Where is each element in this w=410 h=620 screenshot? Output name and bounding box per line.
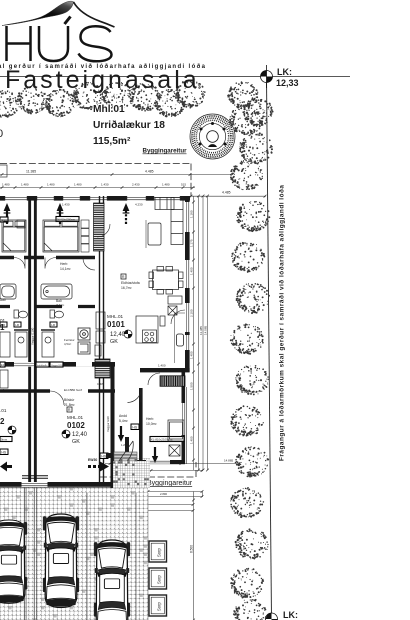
svg-text:Fasteignasala: Fasteignasala — [5, 66, 200, 94]
svg-text:515: 515 — [181, 183, 186, 187]
svg-text:0: 0 — [0, 128, 3, 140]
svg-text:MHL.01: MHL.01 — [107, 314, 124, 319]
svg-text:14.085: 14.085 — [204, 325, 208, 335]
svg-text:4.485: 4.485 — [222, 191, 231, 195]
dashed building-limit line bottom — [100, 462, 196, 477]
car 1 — [0, 520, 27, 603]
vertical dimension chains right — [193, 196, 195, 470]
svg-text:1.20: 1.20 — [121, 443, 127, 447]
svg-text:5,4m²: 5,4m² — [119, 419, 129, 423]
svg-text:0101: 0101 — [107, 320, 125, 329]
svg-text:12,40: 12,40 — [110, 332, 126, 338]
svg-text:C.48: C.48 — [168, 368, 174, 372]
toilet right — [50, 310, 64, 318]
arrow EW30 right — [88, 462, 109, 472]
svg-text:2.430: 2.430 — [132, 183, 140, 187]
svg-text:Veggur E160: Veggur E160 — [51, 364, 64, 367]
bathtub right — [41, 284, 72, 299]
window label right — [150, 437, 184, 442]
window label mid — [56, 217, 79, 222]
svg-text:1.400: 1.400 — [190, 267, 194, 275]
paving edge line — [147, 493, 149, 620]
svg-text:1.400: 1.400 — [190, 436, 194, 444]
svg-text:.01: .01 — [0, 408, 7, 413]
opening arrow entrance dashed — [123, 203, 130, 224]
balcony door top — [171, 310, 185, 324]
svg-text:2.890: 2.890 — [160, 492, 167, 496]
svg-text:Eldhús/stofa: Eldhús/stofa — [121, 281, 140, 285]
svg-text:MHL.01: MHL.01 — [67, 415, 84, 420]
door herb lower — [148, 373, 160, 385]
door kitchen hall — [97, 224, 110, 237]
kitchen wall cabinets right — [160, 296, 182, 326]
svg-text:Bað: Bað — [0, 297, 6, 302]
svg-text:1.480: 1.480 — [47, 183, 55, 187]
sorp bin 2 — [149, 568, 167, 589]
herb chair x — [169, 445, 180, 456]
door bedroom right — [45, 258, 56, 269]
svg-text:2: 2 — [0, 417, 5, 426]
washbasin right — [42, 332, 54, 357]
logo text HUS — [7, 17, 112, 62]
label eldhus/stofa — [121, 274, 126, 279]
left unit KL label fragment — [0, 437, 12, 442]
svg-text:HS: HS — [1, 450, 6, 454]
porch divider wall — [139, 388, 143, 460]
svg-text:12,40: 12,40 — [72, 432, 88, 438]
svg-text:4.485: 4.485 — [145, 170, 154, 174]
corner sofa — [155, 198, 183, 245]
interior wall bath bottom — [0, 305, 95, 308]
svg-text:Þéttiklæðn: Þéttiklæðn — [37, 364, 48, 367]
svg-text:4.230: 4.230 — [135, 203, 143, 207]
wall kitchen side — [100, 196, 104, 482]
svg-text:Herb: Herb — [146, 417, 153, 421]
sliding door leaf — [177, 334, 184, 346]
door living — [83, 258, 95, 270]
svg-text:1.480: 1.480 — [74, 183, 82, 187]
svg-text:10,0m²: 10,0m² — [146, 422, 157, 426]
vertical dimension line far right bottom — [193, 492, 195, 620]
herb desk — [168, 420, 184, 441]
svg-text:LK:: LK: — [283, 610, 298, 620]
svg-text:El-C5B0 hurð: El-C5B0 hurð — [64, 387, 82, 392]
entry door arc — [112, 441, 133, 470]
svg-text:Mhl.01: Mhl.01 — [93, 104, 125, 115]
left unit fragments — [0, 332, 10, 388]
car 3 — [94, 540, 130, 620]
svg-text:Byggingareitur: Byggingareitur — [143, 148, 188, 155]
svg-text:EW30: EW30 — [88, 458, 97, 462]
logo roof swoosh — [2, 1, 74, 25]
svg-text:14,1m²: 14,1m² — [60, 267, 71, 271]
hatched closet mid — [95, 359, 110, 378]
svg-text:Sorp: Sorp — [157, 601, 162, 611]
garage side wall — [111, 364, 115, 488]
bottom wall garage — [0, 482, 114, 487]
porch wall — [125, 437, 129, 455]
arrow down entry — [152, 447, 158, 463]
paved parking area — [0, 487, 148, 620]
terrace recess outline — [175, 313, 186, 363]
svg-text:1.480: 1.480 — [162, 183, 170, 187]
interior wall mid thick — [0, 362, 115, 367]
ornamental tree (concentric) — [190, 114, 235, 159]
wall bottom right — [137, 460, 185, 464]
plot boundary top line — [0, 76, 350, 78]
svg-text:11.385: 11.385 — [199, 326, 203, 335]
benchmark 0102 — [62, 430, 70, 438]
rug line — [145, 220, 147, 248]
bathtub left — [0, 284, 16, 299]
svg-text:1.180: 1.180 — [190, 210, 194, 218]
sorp bin 3 — [149, 595, 167, 616]
window label left — [0, 217, 8, 222]
svg-text:Sorp: Sorp — [157, 574, 162, 584]
wall terrace top — [140, 368, 190, 372]
wall right lower — [182, 372, 186, 464]
svg-text:GK: GK — [110, 339, 118, 345]
wall labels mid — [0, 362, 5, 367]
fridge boxes — [168, 306, 177, 315]
svg-text:1.480: 1.480 — [21, 183, 29, 187]
kitchen island — [136, 316, 158, 343]
dashed building-limit line top — [0, 163, 191, 165]
dimension line right of building top — [190, 195, 266, 197]
svg-text:1.400: 1.400 — [190, 351, 194, 359]
svg-text:7,1m²: 7,1m² — [56, 304, 64, 308]
entrance fine tiles lower — [113, 461, 150, 488]
pergola hatched screen — [160, 376, 185, 387]
cutoff box top left — [0, 165, 7, 177]
dimension lines bottom of building — [105, 463, 240, 465]
label unit 0101 — [107, 314, 126, 345]
svg-text:0mm: 0mm — [1, 437, 8, 441]
svg-text:HS: HS — [132, 425, 137, 429]
opening arrow window 1 — [4, 203, 11, 224]
door terrace — [128, 389, 142, 403]
svg-text:115,5m²: 115,5m² — [93, 136, 131, 147]
entrance paving tiles — [130, 458, 150, 488]
exterior wall right — [185, 196, 190, 372]
svg-text:Herb: Herb — [60, 262, 67, 266]
svg-text:2.100: 2.100 — [190, 309, 194, 317]
dining table — [149, 267, 183, 295]
svg-text:4,5m²: 4,5m² — [64, 342, 71, 346]
svg-text:GK: GK — [72, 439, 80, 445]
logo roof right line — [74, 2, 115, 27]
parking stall lines — [0, 487, 148, 620]
shrub row along top boundary — [0, 90, 19, 118]
svg-text:C.48: C.48 — [97, 382, 103, 386]
svg-text:Urriðalækur 18: Urriðalækur 18 — [93, 119, 165, 131]
svg-text:1.430: 1.430 — [62, 203, 70, 207]
dimension chain overall top — [0, 174, 233, 176]
svg-text:Veggur E190: Veggur E190 — [30, 327, 34, 345]
porch steps — [114, 452, 137, 461]
label HS boxes — [131, 424, 139, 430]
washbasin left — [15, 332, 27, 357]
garage door leaf — [22, 476, 48, 479]
svg-text:Sorp: Sorp — [157, 547, 162, 557]
hall closet — [96, 312, 105, 343]
svg-text:0102: 0102 — [67, 421, 85, 430]
door garage arc — [50, 391, 64, 405]
svg-text:E1: E1 — [1, 363, 5, 367]
garage front wall — [0, 389, 115, 393]
dimension chain windows top — [0, 187, 195, 189]
arrow down hall — [118, 426, 124, 442]
svg-text:1.400: 1.400 — [158, 364, 166, 368]
opening arrow window 2 — [57, 203, 64, 224]
bed left unit — [2, 220, 26, 252]
survey marker LK bottom — [266, 610, 299, 620]
coffee table — [148, 223, 161, 245]
plot boundary right line — [267, 77, 272, 620]
svg-text:1: 1 — [0, 323, 5, 332]
label LR boxes — [14, 322, 21, 327]
svg-text:8.500: 8.500 — [189, 545, 193, 553]
sorp bin 1 — [149, 541, 167, 562]
arrow left edge — [0, 462, 12, 472]
svg-text:1.175: 1.175 — [190, 239, 194, 247]
benchmark 0101 — [124, 330, 132, 338]
sink units shelf — [14, 329, 55, 331]
svg-text:Frágangur á lóðarmörkum skal g: Frágangur á lóðarmörkum skal gerður í sa… — [278, 185, 286, 461]
svg-text:11.385: 11.385 — [26, 170, 36, 174]
svg-text:1.480: 1.480 — [2, 183, 10, 187]
exterior wall top — [0, 196, 190, 201]
svg-text:Byggingareitur: Byggingareitur — [147, 480, 193, 487]
label unit 0102 — [67, 407, 88, 445]
svg-text:al gerður í samráði við lóðarh: al gerður í samráði við lóðarhafa aðligg… — [0, 63, 206, 70]
svg-text:LK:: LK: — [277, 67, 292, 77]
svg-text:Andd: Andd — [119, 414, 127, 418]
svg-text:Bað: Bað — [56, 298, 62, 303]
car 2 — [43, 514, 79, 608]
svg-text:16,7m²: 16,7m² — [121, 286, 132, 290]
svg-text:21,8m²: 21,8m² — [64, 403, 75, 407]
toilet left — [14, 310, 28, 318]
svg-text:12,33: 12,33 — [276, 78, 299, 88]
svg-text:Bílskúr: Bílskúr — [64, 398, 75, 402]
door bedroom left — [14, 258, 25, 269]
shrub column along right boundary — [229, 104, 263, 135]
interior wall bedrooms bottom — [0, 256, 95, 259]
svg-text:1.500: 1.500 — [190, 382, 194, 390]
kitchen counter hatched — [94, 203, 105, 251]
survey marker LK 12,33 — [261, 65, 299, 88]
bed right unit — [43, 220, 79, 252]
svg-text:1.430: 1.430 — [101, 183, 109, 187]
washer traps — [78, 328, 90, 354]
svg-text:14.885: 14.885 — [224, 459, 234, 463]
party wall centre — [28, 196, 31, 482]
bedside tables — [17, 220, 89, 252]
svg-text:Veggur E90: Veggur E90 — [106, 416, 110, 432]
